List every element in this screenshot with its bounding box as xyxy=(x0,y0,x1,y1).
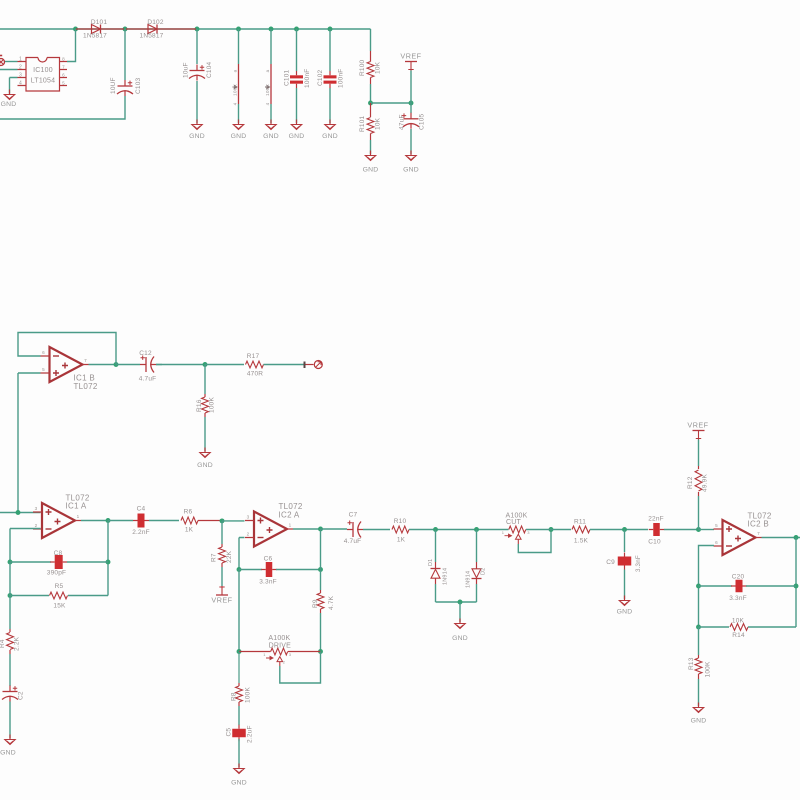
wire: rail drop to R100 xyxy=(370,29,372,51)
svg-text:4.7uF: 4.7uF xyxy=(139,376,157,383)
node C20 left xyxy=(696,584,701,589)
junction rail/JP102 branch xyxy=(269,27,274,32)
wire: C9 to ground xyxy=(624,570,626,600)
node left C8 junction xyxy=(8,560,13,565)
wire: IC2B inverting input net xyxy=(699,546,715,628)
svg-text:C2: C2 xyxy=(18,691,25,700)
resistor R9 4.7K xyxy=(312,590,335,613)
svg-text:R12: R12 xyxy=(687,476,694,489)
resistor R11 1.5K xyxy=(572,519,590,545)
op-amp IC1 A TL072 xyxy=(33,494,90,539)
svg-text:7: 7 xyxy=(84,358,87,363)
svg-text:2: 2 xyxy=(19,65,22,71)
svg-text:IC2 B: IC2 B xyxy=(748,520,770,529)
svg-text:TL072: TL072 xyxy=(74,382,98,391)
capacitor C6 3.3nF xyxy=(239,556,321,586)
ground GND under R101 xyxy=(370,151,372,156)
wire: R100 to VREF junction xyxy=(370,84,372,103)
capacitor C7 4.7uF xyxy=(321,512,391,546)
capacitor C2 10uF xyxy=(2,686,25,702)
node C6 right junction xyxy=(318,567,323,572)
svg-text:R4: R4 xyxy=(0,639,6,648)
svg-text:GND: GND xyxy=(322,133,338,140)
wire: IC2A output xyxy=(293,528,321,530)
svg-text:C12: C12 xyxy=(139,350,152,357)
svg-text:100K: 100K xyxy=(209,397,216,413)
svg-text:DRIVE: DRIVE xyxy=(269,643,292,650)
wire: IC2A inverting input net xyxy=(239,538,245,570)
svg-text:C7: C7 xyxy=(349,512,358,519)
node drive pot right xyxy=(318,649,323,654)
node C6 left junction xyxy=(237,567,242,572)
diode D1 1N914 xyxy=(428,530,449,603)
wire: R8 to C5 xyxy=(238,706,240,725)
wire: output feedback vertical xyxy=(795,538,797,628)
svg-text:R14: R14 xyxy=(732,632,745,639)
wire: junction down to IC100 pin 8 xyxy=(67,29,76,62)
svg-text:C101: C101 xyxy=(284,69,291,86)
svg-text:R17: R17 xyxy=(247,353,260,360)
svg-text:100nF: 100nF xyxy=(338,69,345,88)
svg-text:7: 7 xyxy=(757,531,760,536)
svg-text:C6: C6 xyxy=(264,556,273,563)
ground GND under clippers xyxy=(459,619,461,624)
svg-text:R8: R8 xyxy=(231,692,238,701)
svg-text:22nF: 22nF xyxy=(648,516,664,523)
op-amp IC2 A TL072 xyxy=(245,502,303,547)
svg-text:R6: R6 xyxy=(184,509,193,516)
svg-text:CUT: CUT xyxy=(506,519,522,526)
supply VREF above R12 xyxy=(687,421,708,440)
wire: net into IC100 pin 2 from left edge xyxy=(0,69,18,71)
ground GND under R16 xyxy=(204,448,206,453)
svg-text:4: 4 xyxy=(233,102,238,105)
wire: drive wiper loop to right node xyxy=(280,652,321,684)
wire: C2 to ground xyxy=(9,702,11,739)
svg-text:8: 8 xyxy=(62,57,65,62)
resistor R12 49.9K xyxy=(687,466,709,496)
svg-text:C4: C4 xyxy=(137,506,146,513)
svg-text:4.7uF: 4.7uF xyxy=(344,538,362,545)
wire: VREF to R12 xyxy=(698,440,700,467)
diode D101 1N5817 xyxy=(76,19,124,40)
svg-text:1K: 1K xyxy=(185,526,194,533)
wire: IC1A output to junction xyxy=(81,520,108,522)
svg-text:49.9K: 49.9K xyxy=(702,474,709,492)
capacitor C101 100nF xyxy=(284,29,312,123)
junction rail/C101 xyxy=(294,27,299,32)
resistor R4 2.2K xyxy=(0,629,21,654)
svg-text:R100: R100 xyxy=(359,59,366,76)
node left R5 junction xyxy=(8,593,13,598)
IC IC100 LT1054 charge pump xyxy=(18,57,68,92)
svg-text:7: 7 xyxy=(62,65,65,70)
wire: R13 to ground xyxy=(698,679,700,706)
resistor R101 10K xyxy=(359,103,382,140)
svg-text:10uF: 10uF xyxy=(183,62,190,78)
wire: junction to IC2A + input xyxy=(222,520,245,522)
svg-text:C20: C20 xyxy=(732,574,745,581)
node IC1B output junction xyxy=(114,362,119,367)
svg-text:VREF: VREF xyxy=(687,421,708,430)
junction rail/IC100 pin8 feed xyxy=(73,27,78,32)
wire: IC1B + input from lower stage vertical xyxy=(18,373,41,513)
capacitor C10 22nF xyxy=(648,516,697,546)
svg-text:R10: R10 xyxy=(394,518,407,525)
ground GND under JP102 xyxy=(270,120,272,125)
wire: R16 to ground xyxy=(204,417,206,451)
svg-text:2.2uF: 2.2uF xyxy=(247,725,254,743)
svg-text:GND: GND xyxy=(691,718,707,725)
wire: input net from left edge to IC1A + input xyxy=(0,512,41,514)
node D1 top xyxy=(433,527,438,532)
svg-text:100K: 100K xyxy=(705,661,712,677)
capacitor C105 47uF xyxy=(399,103,426,154)
trimmer JP102 branch xyxy=(265,29,271,123)
node IC2B output junction xyxy=(794,535,799,540)
svg-text:D2: D2 xyxy=(481,568,487,575)
capacitor C12 4.7uF xyxy=(116,350,162,383)
svg-text:2: 2 xyxy=(35,523,38,528)
svg-text:VREF: VREF xyxy=(400,52,421,61)
wire: left vertical R5 to R4 xyxy=(9,596,11,630)
svg-text:1N914: 1N914 xyxy=(466,571,472,588)
wire: node to R17 xyxy=(205,364,244,366)
node input/buffer junction xyxy=(16,510,21,515)
node D2 top xyxy=(474,527,479,532)
svg-text:10K: 10K xyxy=(375,117,382,130)
node tone output junction xyxy=(203,362,208,367)
svg-text:GND: GND xyxy=(231,133,247,140)
junction rail/C102 xyxy=(328,27,333,32)
capacitor C9 3.3nF xyxy=(606,530,642,573)
resistor R5 15K xyxy=(10,583,108,610)
wire: R7 to VREF symbol xyxy=(221,567,223,586)
svg-text:R101: R101 xyxy=(359,115,366,132)
svg-text:GND: GND xyxy=(197,462,213,469)
ground GND under C9 xyxy=(624,596,626,601)
ground GND under R13 xyxy=(698,703,700,708)
ground GND under C101 xyxy=(296,120,298,125)
svg-text:3: 3 xyxy=(19,73,22,79)
op-amp IC1 B TL072 xyxy=(41,347,98,391)
svg-text:IC2 A: IC2 A xyxy=(279,511,300,520)
wire: VREF symbol to junction xyxy=(410,71,412,104)
node cut right xyxy=(549,527,554,532)
svg-text:GND: GND xyxy=(289,133,305,140)
svg-text:R16: R16 xyxy=(196,399,203,412)
node drive pot left xyxy=(237,649,242,654)
node feedback/C8 junction xyxy=(106,560,111,565)
svg-text:4: 4 xyxy=(19,81,22,87)
svg-text:3.3nF: 3.3nF xyxy=(729,595,747,602)
svg-text:GND: GND xyxy=(263,133,279,140)
svg-text:1N5817: 1N5817 xyxy=(83,33,107,40)
wire: C103 bottom to V- rail xyxy=(0,96,125,119)
junction rail/C103 xyxy=(123,27,128,32)
ground GND under JP101 xyxy=(238,120,240,125)
svg-text:2.2K: 2.2K xyxy=(14,636,21,651)
wire: R17 to output pad xyxy=(264,364,306,366)
ground GND under C5 xyxy=(238,764,240,769)
wire: left vertical C8 to R5 xyxy=(9,562,11,596)
junction rail/JP101 branch xyxy=(236,27,241,32)
svg-text:GND: GND xyxy=(452,635,468,642)
svg-text:GND: GND xyxy=(189,133,205,140)
svg-text:10K: 10K xyxy=(732,617,745,624)
wire: output down through C6 node to R9 xyxy=(320,529,322,590)
svg-text:15K: 15K xyxy=(53,603,66,610)
resistor R7 22K xyxy=(211,521,234,567)
svg-text:2: 2 xyxy=(247,532,250,537)
svg-text:100K: 100K xyxy=(245,687,252,703)
wire: +9V top rail xyxy=(0,28,371,30)
wire: divider junction to C105 branch xyxy=(371,102,412,104)
svg-text:3.3nF: 3.3nF xyxy=(635,555,642,572)
svg-text:100nF: 100nF xyxy=(304,69,311,88)
wire: C5 to ground xyxy=(238,739,240,767)
svg-text:3: 3 xyxy=(247,515,250,520)
wire: diode bottoms to ground bus xyxy=(436,601,477,603)
svg-text:R13: R13 xyxy=(688,657,695,670)
svg-text:D101: D101 xyxy=(91,19,108,26)
wire: IC100 pin 3 to ground xyxy=(10,78,18,94)
svg-text:IC1 A: IC1 A xyxy=(66,502,87,511)
diode D2 1N914 xyxy=(466,530,487,603)
wire: IC2B output to right edge xyxy=(762,537,800,539)
capacitor C102 100nF xyxy=(317,29,345,123)
svg-text:1: 1 xyxy=(77,514,80,519)
capacitor C20 3.3nF xyxy=(699,574,797,602)
svg-text:10K: 10K xyxy=(375,61,382,74)
wire: feedback loop IC1B output to inverting input xyxy=(18,333,116,365)
svg-text:C104: C104 xyxy=(206,61,213,78)
svg-text:A100K: A100K xyxy=(268,635,290,642)
op-amp IC2 B TL072 xyxy=(714,512,772,556)
trimmer JP101 branch xyxy=(232,29,238,123)
wire: R101 to ground xyxy=(370,140,372,154)
diode D102 1N5817 xyxy=(126,19,196,40)
wire: R9 down to drive pot right node xyxy=(320,613,322,652)
capacitor C5 2.2uF xyxy=(226,725,254,743)
node IC2A output junction xyxy=(318,527,323,532)
wire: R12 to IC2B + input xyxy=(698,496,700,530)
svg-text:4.7K: 4.7K xyxy=(328,595,335,610)
svg-text:C8: C8 xyxy=(54,550,63,557)
resistor R8 100K xyxy=(231,652,252,707)
svg-text:6: 6 xyxy=(715,540,718,545)
svg-text:6: 6 xyxy=(62,73,65,78)
svg-text:VREF: VREF xyxy=(211,596,232,605)
wire: R11 to C9/C10 node xyxy=(590,529,648,531)
svg-text:C10: C10 xyxy=(648,539,661,546)
svg-text:5: 5 xyxy=(42,367,45,372)
svg-text:3.3nF: 3.3nF xyxy=(259,579,277,586)
svg-text:1: 1 xyxy=(289,523,292,528)
svg-text:C9: C9 xyxy=(606,559,615,566)
svg-text:100K: 100K xyxy=(265,83,271,96)
svg-text:GND: GND xyxy=(363,167,379,174)
wire: IC1A inverting input net xyxy=(10,529,41,563)
wire: cut wiper loop to right node xyxy=(518,530,551,553)
svg-text:5: 5 xyxy=(62,81,65,86)
svg-text:1N914: 1N914 xyxy=(443,568,449,585)
svg-text:470R: 470R xyxy=(247,371,263,378)
svg-text:100K: 100K xyxy=(232,83,238,96)
svg-text:GND: GND xyxy=(0,750,16,757)
svg-text:LT1054: LT1054 xyxy=(31,78,55,85)
resistor R10 1K xyxy=(392,518,409,544)
svg-text:1: 1 xyxy=(19,57,22,63)
resistor R17 470R xyxy=(246,353,264,378)
svg-text:a: a xyxy=(265,69,270,72)
node IC1A output junction xyxy=(106,518,111,523)
svg-text:IC100: IC100 xyxy=(33,67,53,74)
svg-text:R5: R5 xyxy=(55,583,64,590)
svg-text:1K: 1K xyxy=(397,537,406,544)
node C9 junction xyxy=(622,527,627,532)
node R14 left xyxy=(696,625,701,630)
resistor R6 1K xyxy=(181,509,220,534)
wire: R10 to clipping nodes xyxy=(409,529,509,531)
capacitor C104 10uF xyxy=(183,29,214,123)
ground GND under C104 xyxy=(196,120,198,125)
svg-text:R11: R11 xyxy=(574,519,586,526)
node output/C20 right xyxy=(794,584,799,589)
resistor R16 100K xyxy=(196,365,216,418)
svg-text:R7: R7 xyxy=(211,553,218,562)
ground GND under C2 xyxy=(9,735,11,740)
svg-text:GND: GND xyxy=(403,167,419,174)
pad OUT xyxy=(305,361,323,369)
wire: pad to IC100 pin 1 xyxy=(5,61,18,63)
svg-text:GND: GND xyxy=(617,609,633,616)
svg-text:3: 3 xyxy=(35,506,38,511)
potentiometer DRIVE A100K xyxy=(239,635,321,666)
wire: feedback vertical from output xyxy=(107,521,109,596)
svg-text:D102: D102 xyxy=(147,19,164,26)
resistor R14 10K xyxy=(699,617,797,639)
node VREF divider junction xyxy=(368,101,373,106)
svg-text:1N5817: 1N5817 xyxy=(140,33,164,40)
svg-text:4: 4 xyxy=(265,102,270,105)
svg-text:C102: C102 xyxy=(317,69,324,86)
svg-text:C5: C5 xyxy=(226,728,233,737)
wire: IC1B output to feedback node xyxy=(89,364,117,366)
resistor R13 100K xyxy=(688,627,712,679)
resistor R100 10K xyxy=(359,51,382,84)
junction rail/C104 xyxy=(195,27,200,32)
potentiometer CUT A100K xyxy=(502,513,531,544)
node R6/R7/IC2A junction xyxy=(220,518,225,523)
svg-text:22K: 22K xyxy=(226,550,233,563)
ground GND under C102 xyxy=(329,120,331,125)
svg-text:10UF: 10UF xyxy=(110,77,117,94)
svg-text:47uF: 47uF xyxy=(399,114,406,130)
pad P101 battery input xyxy=(0,56,5,66)
svg-text:GND: GND xyxy=(231,780,247,787)
svg-text:R9: R9 xyxy=(312,599,319,608)
wire: cut to R11 xyxy=(526,529,571,531)
capacitor C103 10UF xyxy=(110,29,142,96)
ground GND at IC100 pin3 xyxy=(9,90,11,95)
svg-text:6: 6 xyxy=(42,350,45,355)
wire: C12 to R16/R17 node xyxy=(156,364,203,366)
svg-text:5: 5 xyxy=(715,523,718,528)
capacitor C4 2.2nF xyxy=(108,506,179,536)
svg-text:a: a xyxy=(233,69,238,72)
svg-text:1.5K: 1.5K xyxy=(574,538,589,545)
supply VREF under R7 xyxy=(211,586,232,605)
svg-text:D1: D1 xyxy=(428,559,434,566)
svg-text:C103: C103 xyxy=(135,77,142,94)
supply VREF top xyxy=(400,52,421,71)
wire: R4 to C2 xyxy=(9,654,11,686)
svg-text:390pF: 390pF xyxy=(47,570,66,577)
svg-text:GND: GND xyxy=(1,101,17,108)
node clipper ground junction xyxy=(458,600,463,605)
svg-text:2.2nF: 2.2nF xyxy=(132,529,150,536)
node IC2B + input junction xyxy=(696,527,701,532)
svg-text:C105: C105 xyxy=(419,113,426,130)
wire: clipper junction to ground xyxy=(459,602,461,622)
capacitor C8 390pF xyxy=(10,550,108,577)
wire: junction to IC2B xyxy=(699,529,715,531)
wire: inverting vertical down to drive pot left node xyxy=(238,570,240,652)
ground GND under C105 xyxy=(410,151,412,156)
